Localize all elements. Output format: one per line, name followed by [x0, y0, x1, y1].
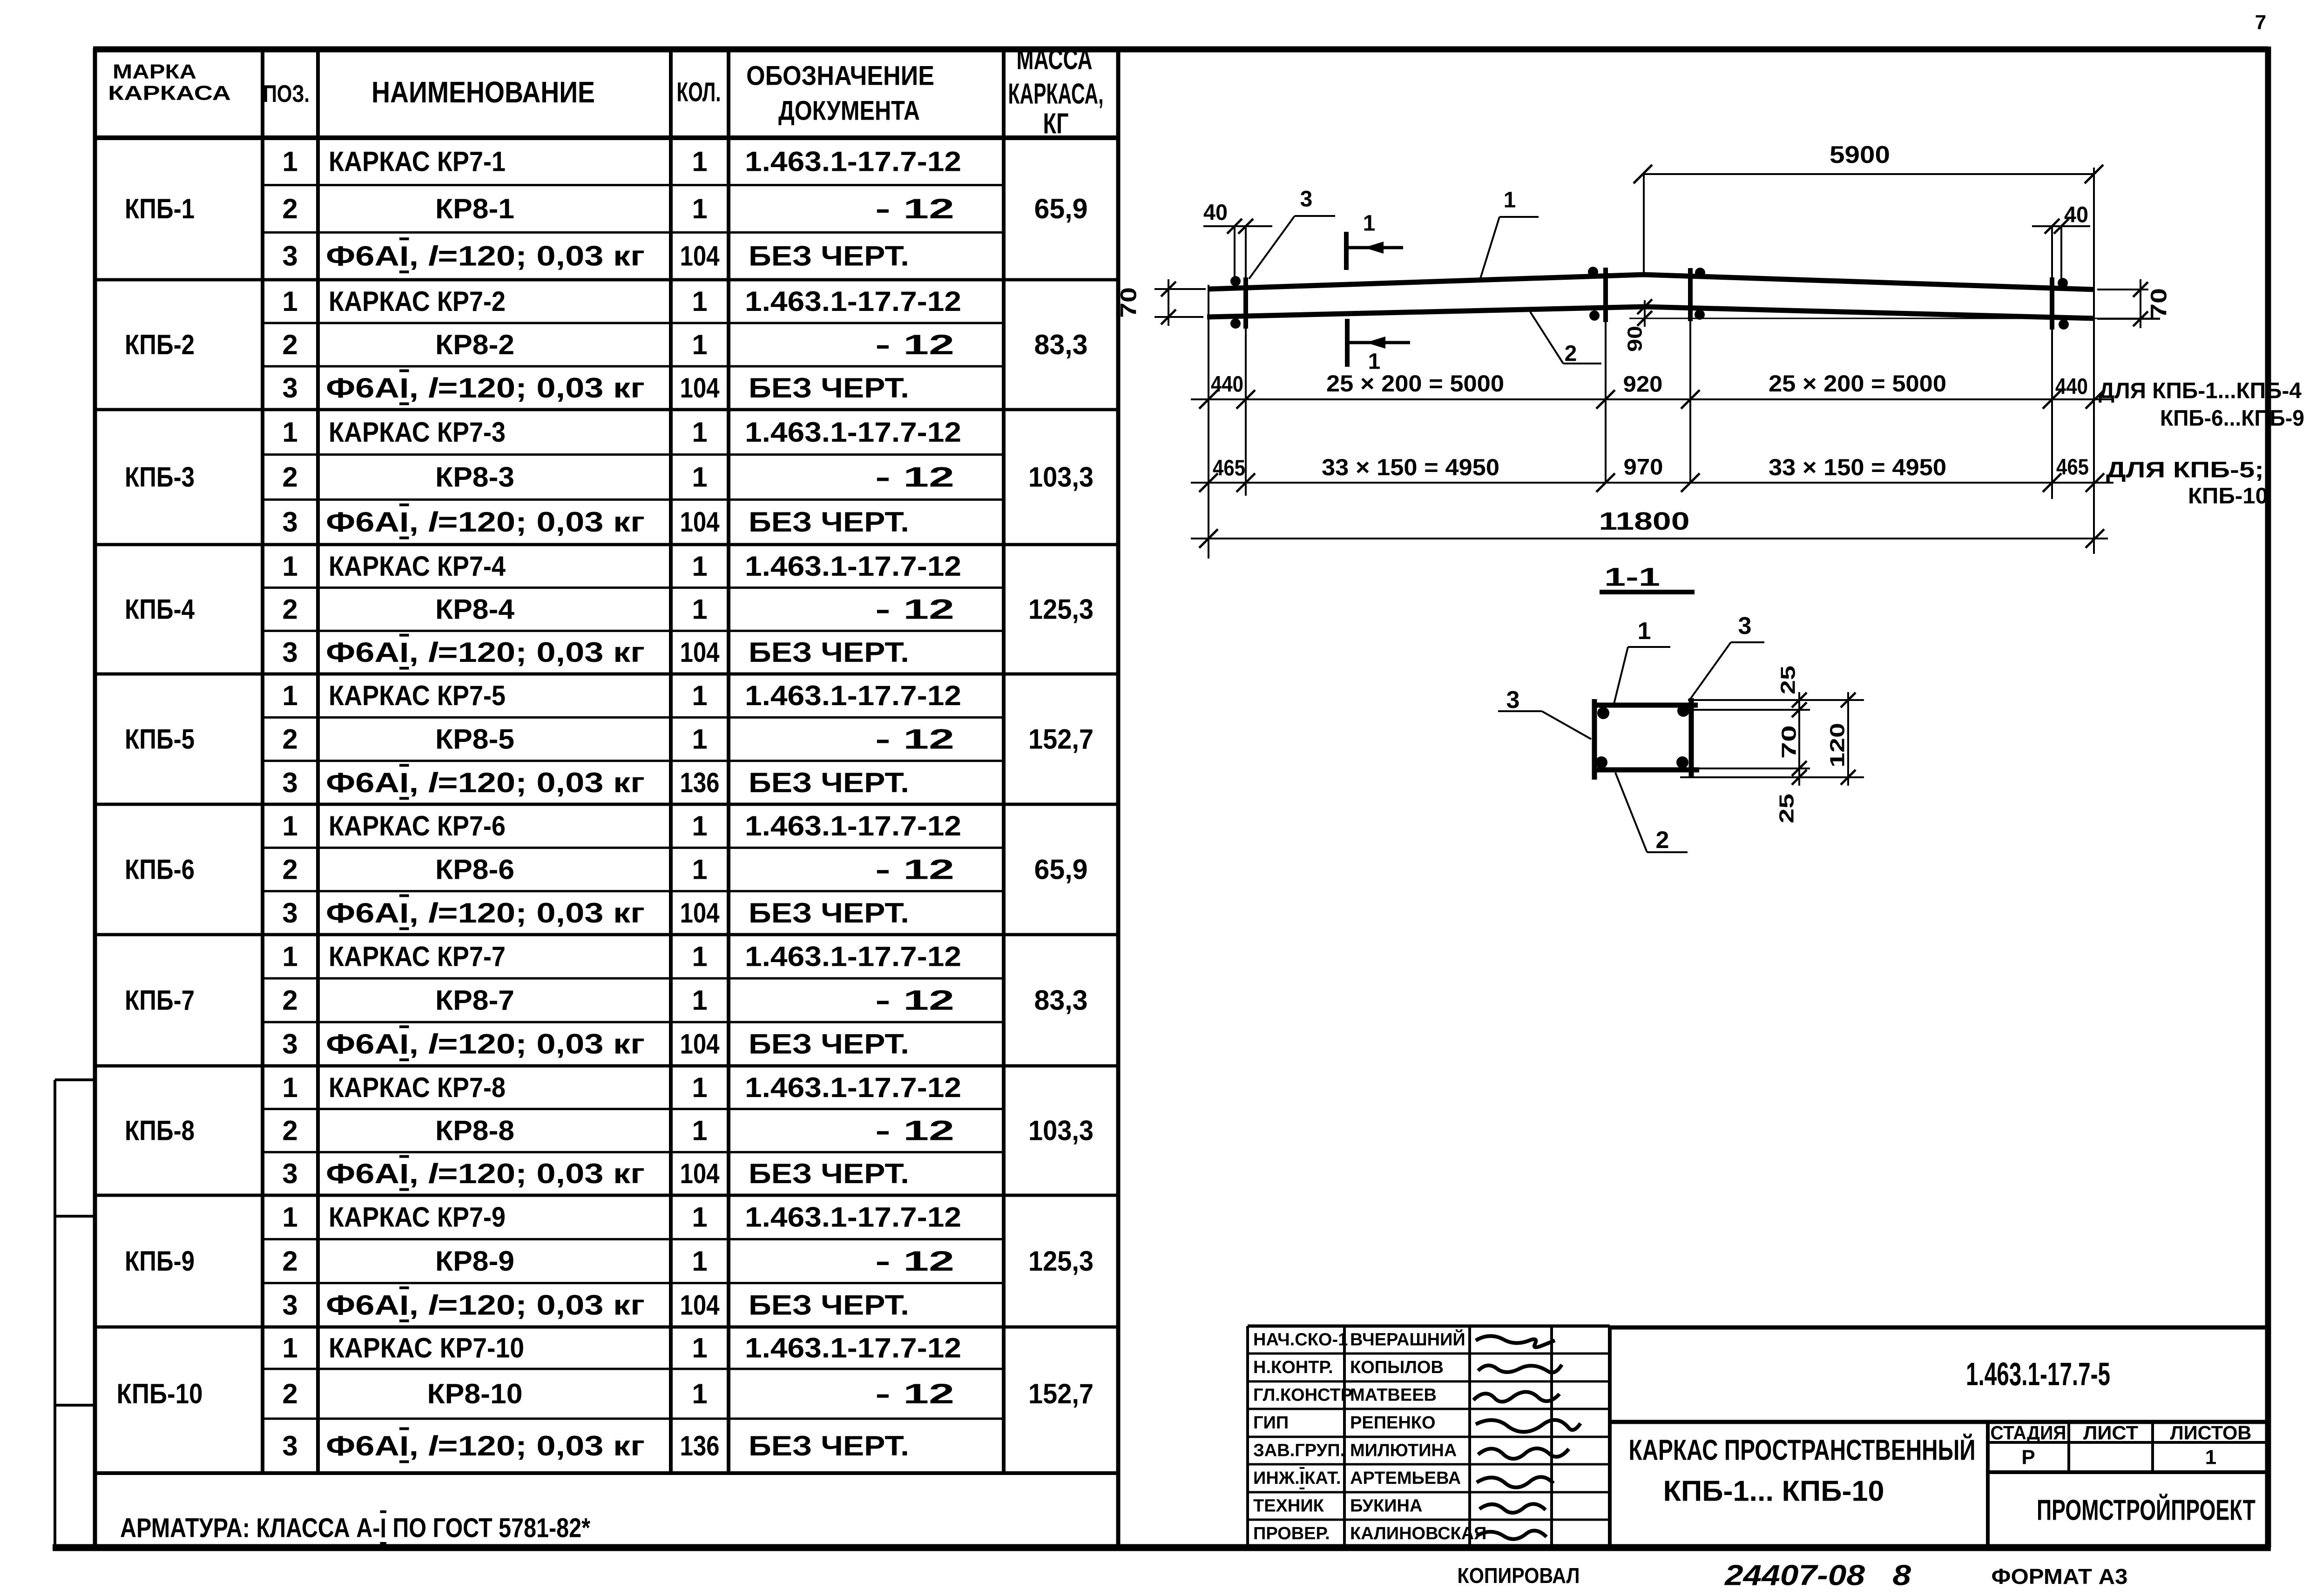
svg-text:2: 2 — [282, 329, 297, 360]
svg-text:104: 104 — [680, 1029, 720, 1060]
sub-row lines of block KPB-3 — [263, 453, 1004, 456]
section corner dots — [1597, 707, 1609, 719]
table block boundary below KPB-1 — [93, 278, 1118, 282]
title block name/stamp divider — [1986, 1422, 1990, 1548]
svg-text:1: 1 — [282, 417, 297, 448]
svg-text:2: 2 — [282, 594, 297, 625]
svg-text:НАЧ.СКО-1: НАЧ.СКО-1 — [1253, 1330, 1348, 1350]
svg-text:КПБ-8: КПБ-8 — [125, 1115, 195, 1146]
svg-text:1: 1 — [692, 854, 707, 885]
svg-text:104: 104 — [680, 1158, 720, 1189]
right end cross bar 3 — [2051, 226, 2053, 499]
svg-text:1: 1 — [692, 941, 707, 972]
extension line left cage tip vertical — [1208, 285, 1209, 559]
dimension chain row 3 total 11800 — [1191, 538, 2108, 539]
svg-text:2: 2 — [282, 985, 297, 1016]
svg-text:1: 1 — [282, 551, 297, 582]
svg-text:440: 440 — [2055, 375, 2088, 399]
svg-text:- 12: - 12 — [875, 329, 954, 360]
signature table row line y=3206 — [1248, 1491, 1610, 1494]
signature table outline — [1246, 1326, 1249, 1548]
svg-text:ОБОЗНАЧЕНИЕ: ОБОЗНАЧЕНИЕ — [746, 61, 934, 91]
svg-text:2: 2 — [1565, 342, 1577, 366]
svg-text:2: 2 — [282, 724, 297, 755]
svg-text:3: 3 — [1300, 187, 1313, 212]
svg-text:- 12: - 12 — [875, 1246, 954, 1277]
sheet frame top border — [93, 47, 2268, 53]
svg-text:465: 465 — [2056, 455, 2089, 480]
table header bottom line — [93, 135, 1118, 140]
svg-text:КОПИРОВАЛ: КОПИРОВАЛ — [1458, 1563, 1580, 1588]
svg-text:25: 25 — [1777, 666, 1800, 694]
svg-text:2: 2 — [1656, 827, 1669, 854]
svg-text:Ф6АI, l=120; 0,03 кг: Ф6АI, l=120; 0,03 кг — [326, 506, 645, 538]
svg-text:БЕЗ ЧЕРТ.: БЕЗ ЧЕРТ. — [749, 1158, 909, 1189]
svg-text:3: 3 — [282, 241, 297, 272]
svg-text:1: 1 — [692, 193, 707, 224]
svg-text:104: 104 — [680, 506, 720, 538]
svg-text:1: 1 — [282, 1202, 297, 1233]
svg-text:КАРКАС КР7-2: КАРКАС КР7-2 — [329, 286, 506, 317]
svg-text:КАРКАС КР7-8: КАРКАС КР7-8 — [329, 1072, 506, 1103]
svg-text:БЕЗ ЧЕРТ.: БЕЗ ЧЕРТ. — [749, 372, 909, 404]
svg-text:ЗАВ.ГРУП.: ЗАВ.ГРУП. — [1253, 1441, 1345, 1461]
svg-text:Ф6АI, l=120; 0,03 кг: Ф6АI, l=120; 0,03 кг — [326, 241, 645, 272]
left 40 extension line — [1234, 226, 1236, 285]
svg-text:ПРОМСТРОЙПРОЕКТ: ПРОМСТРОЙПРОЕКТ — [2037, 1494, 2255, 1527]
sub-row lines of block KPB-5 — [263, 716, 1004, 719]
svg-text:1.463.1-17.7-12: 1.463.1-17.7-12 — [745, 810, 961, 842]
svg-text:Ф6АI, l=120; 0,03 кг: Ф6АI, l=120; 0,03 кг — [326, 767, 645, 798]
svg-text:КОЛ.: КОЛ. — [677, 77, 721, 108]
svg-text:33 × 150 = 4950: 33 × 150 = 4950 — [1769, 454, 1946, 480]
svg-text:3: 3 — [282, 897, 297, 929]
svg-text:3: 3 — [282, 767, 297, 798]
signature table row line y=2908 — [1248, 1353, 1610, 1355]
svg-text:КАРКАС КР7-1: КАРКАС КР7-1 — [329, 146, 506, 177]
table left edge — [93, 48, 97, 1548]
table bottom line above armatura note — [93, 1471, 1118, 1475]
svg-text:1: 1 — [1504, 188, 1516, 213]
svg-text:136: 136 — [680, 767, 720, 798]
svg-text:1: 1 — [282, 941, 297, 972]
svg-text:КПБ-7: КПБ-7 — [125, 985, 195, 1016]
svg-text:ДЛЯ КПБ-1...КПБ-4: ДЛЯ КПБ-1...КПБ-4 — [2099, 379, 2302, 404]
svg-text:2: 2 — [282, 1378, 297, 1409]
svg-text:Ф6АI, l=120; 0,03 кг: Ф6АI, l=120; 0,03 кг — [326, 1158, 645, 1189]
svg-text:104: 104 — [680, 1289, 720, 1320]
svg-text:2: 2 — [282, 1246, 297, 1277]
svg-text:- 12: - 12 — [875, 854, 954, 885]
table block boundary below KPB-5 — [93, 803, 1118, 806]
svg-text:1: 1 — [282, 286, 297, 317]
svg-text:КПБ-6: КПБ-6 — [125, 854, 195, 885]
svg-text:1: 1 — [282, 1333, 297, 1364]
svg-text:33 × 150 = 4950: 33 × 150 = 4950 — [1322, 454, 1499, 480]
svg-text:КАРКАС КР7-6: КАРКАС КР7-6 — [329, 810, 506, 842]
svg-text:70: 70 — [2147, 288, 2172, 319]
svg-text:104: 104 — [680, 897, 720, 929]
section dim 120 — [1847, 692, 1849, 786]
fold strip connector 3 — [55, 1404, 95, 1407]
svg-text:КАРКАС КР7-4: КАРКАС КР7-4 — [329, 551, 506, 582]
svg-text:- 12: - 12 — [875, 985, 954, 1016]
middle reference line — [1629, 318, 2160, 319]
svg-text:920: 920 — [1623, 372, 1663, 397]
svg-text:КР8-2: КР8-2 — [435, 329, 514, 360]
svg-text:136: 136 — [680, 1430, 720, 1461]
svg-text:83,3: 83,3 — [1034, 329, 1088, 360]
svg-text:Ф6АI, l=120; 0,03 кг: Ф6АI, l=120; 0,03 кг — [326, 1029, 645, 1060]
svg-text:1.463.1-17.7-12: 1.463.1-17.7-12 — [745, 286, 961, 317]
svg-text:БУКИНА: БУКИНА — [1350, 1496, 1422, 1516]
svg-text:1.463.1-17.7-12: 1.463.1-17.7-12 — [745, 941, 961, 972]
svg-text:КАЛИНОВСКАЯ: КАЛИНОВСКАЯ — [1350, 1524, 1486, 1543]
svg-text:104: 104 — [680, 637, 720, 668]
svg-text:65,9: 65,9 — [1034, 854, 1088, 885]
sub-row lines of block KPB-4 — [263, 586, 1004, 589]
svg-text:БЕЗ ЧЕРТ.: БЕЗ ЧЕРТ. — [749, 1289, 909, 1320]
svg-text:КПБ-1: КПБ-1 — [125, 193, 195, 224]
svg-text:152,7: 152,7 — [1028, 724, 1094, 755]
svg-text:2: 2 — [282, 1115, 297, 1146]
svg-text:3: 3 — [1506, 687, 1520, 714]
table block boundary below KPB-6 — [93, 933, 1118, 936]
svg-text:1: 1 — [2205, 1446, 2216, 1469]
svg-text:1: 1 — [692, 985, 707, 1016]
svg-text:МАТВЕЕВ: МАТВЕЕВ — [1350, 1386, 1437, 1405]
sub-row lines of block KPB-1 — [263, 184, 1004, 186]
table column line Poz/Naimenovanie — [316, 50, 320, 1473]
svg-text:КАРКАС КР7-10: КАРКАС КР7-10 — [329, 1333, 524, 1364]
right dim 40 — [2032, 225, 2090, 227]
svg-text:КПБ-9: КПБ-9 — [125, 1246, 195, 1277]
svg-text:- 12: - 12 — [875, 1115, 954, 1146]
svg-text:1: 1 — [1638, 618, 1651, 645]
section cut mark 1 top — [1344, 232, 1349, 270]
svg-text:2: 2 — [282, 854, 297, 885]
svg-text:АРМАТУРА: КЛАССА А-I ПО ГОСТ 5: АРМАТУРА: КЛАССА А-I ПО ГОСТ 5781-82* — [120, 1513, 590, 1543]
svg-text:КПБ-5: КПБ-5 — [125, 724, 195, 755]
svg-text:Ф6АI, l=120; 0,03 кг: Ф6АI, l=120; 0,03 кг — [326, 1430, 645, 1461]
svg-text:103,3: 103,3 — [1028, 462, 1094, 493]
section right bar 3 — [1689, 698, 1694, 777]
sub-row lines of block KPB-8 — [263, 1108, 1004, 1110]
svg-text:11800: 11800 — [1599, 507, 1690, 535]
svg-text:КАРКАС КР7-3: КАРКАС КР7-3 — [329, 417, 506, 448]
svg-text:152,7: 152,7 — [1028, 1378, 1094, 1409]
svg-text:КАРКАСА,: КАРКАСА, — [1008, 78, 1104, 110]
svg-text:1: 1 — [692, 551, 707, 582]
signature scribbles — [1476, 1336, 1555, 1347]
svg-text:ДОКУМЕНТА: ДОКУМЕНТА — [778, 96, 920, 126]
svg-text:КПБ-6...КПБ-9: КПБ-6...КПБ-9 — [2160, 406, 2304, 431]
svg-text:КР8-3: КР8-3 — [435, 462, 514, 493]
table block boundary below KPB-2 — [93, 408, 1118, 411]
svg-text:КР8-4: КР8-4 — [435, 594, 515, 625]
svg-text:МАССА: МАССА — [1017, 44, 1093, 76]
sub-row lines of block KPB-10 — [263, 1368, 1004, 1370]
svg-text:ГЛ.КОНСТР: ГЛ.КОНСТР — [1253, 1386, 1352, 1405]
svg-text:ЛИСТОВ: ЛИСТОВ — [2170, 1422, 2252, 1444]
svg-text:1.463.1-17.7-5: 1.463.1-17.7-5 — [1966, 1356, 2110, 1392]
svg-text:КР8-10: КР8-10 — [427, 1378, 523, 1409]
svg-text:1: 1 — [692, 1333, 707, 1364]
dimension chain row 2 (33x150=4950) — [1191, 482, 2113, 484]
svg-text:25: 25 — [1776, 794, 1798, 823]
sub-row lines of block KPB-9 — [263, 1238, 1004, 1240]
svg-text:Ф6АI, l=120; 0,03 кг: Ф6АI, l=120; 0,03 кг — [326, 637, 645, 668]
svg-text:Ф6АI, l=120; 0,03 кг: Ф6АI, l=120; 0,03 кг — [326, 372, 645, 404]
bottom chord bar 2 — [1207, 307, 2094, 318]
svg-text:125,3: 125,3 — [1028, 594, 1094, 625]
top chord bar 1 — [1209, 275, 2094, 290]
middle dim 90 — [1644, 300, 1646, 327]
svg-text:1: 1 — [692, 1246, 707, 1277]
svg-text:2: 2 — [282, 462, 297, 493]
table column line Marka/Poz — [261, 50, 264, 1473]
left dim 40 — [1203, 225, 1272, 227]
svg-text:БЕЗ ЧЕРТ.: БЕЗ ЧЕРТ. — [749, 637, 909, 668]
svg-text:3: 3 — [1738, 613, 1752, 640]
svg-text:КОПЫЛОВ: КОПЫЛОВ — [1350, 1358, 1444, 1377]
svg-text:МИЛЮТИНА: МИЛЮТИНА — [1350, 1441, 1457, 1461]
svg-text:КАРКАС КР7-7: КАРКАС КР7-7 — [329, 941, 506, 972]
svg-text:КР8-7: КР8-7 — [435, 985, 514, 1016]
svg-text:24407-08 8: 24407-08 8 — [1724, 1560, 1911, 1592]
svg-text:МАРКА: МАРКА — [113, 61, 196, 83]
svg-text:КПБ-3: КПБ-3 — [125, 462, 195, 493]
svg-text:- 12: - 12 — [875, 193, 954, 224]
section bottom bar 2 — [1594, 768, 1699, 773]
svg-text:КР8-5: КР8-5 — [435, 724, 514, 755]
svg-text:БЕЗ ЧЕРТ.: БЕЗ ЧЕРТ. — [749, 767, 909, 798]
sheet frame bottom border — [53, 1544, 2271, 1551]
dimension 5900 line — [1643, 173, 2094, 175]
svg-text:40: 40 — [1203, 201, 1228, 225]
svg-text:Ф6АI, l=120; 0,03 кг: Ф6АI, l=120; 0,03 кг — [326, 1289, 645, 1320]
sheet frame right border — [2265, 47, 2271, 1548]
svg-text:1.463.1-17.7-12: 1.463.1-17.7-12 — [745, 680, 961, 711]
svg-text:РЕПЕНКО: РЕПЕНКО — [1350, 1413, 1436, 1433]
signature table row line y=3087 — [1248, 1436, 1610, 1438]
title block doc number divider — [1610, 1420, 2268, 1424]
svg-text:90: 90 — [1624, 326, 1647, 352]
sub-row lines of block KPB-2 — [263, 322, 1004, 324]
svg-text:БЕЗ ЧЕРТ.: БЕЗ ЧЕРТ. — [749, 1430, 909, 1461]
svg-text:КАРКАС ПРОСТРАНСТВЕННЫЙ: КАРКАС ПРОСТРАНСТВЕННЫЙ — [1629, 1434, 1976, 1467]
svg-text:465: 465 — [1213, 456, 1245, 481]
svg-text:КАРКАС КР7-9: КАРКАС КР7-9 — [329, 1202, 506, 1233]
svg-text:1: 1 — [1363, 211, 1376, 236]
signature table row line y=3265 — [1248, 1519, 1610, 1521]
section left bar 3 — [1592, 699, 1597, 780]
svg-text:СТАДИЯ: СТАДИЯ — [1991, 1422, 2066, 1444]
svg-text:- 12: - 12 — [875, 462, 954, 493]
svg-text:ТЕХНИК: ТЕХНИК — [1253, 1496, 1324, 1516]
svg-text:1: 1 — [692, 329, 707, 360]
svg-text:1: 1 — [282, 146, 297, 177]
svg-text:3: 3 — [282, 1158, 297, 1189]
left end cross bar 3 — [1245, 226, 1247, 496]
svg-text:1.463.1-17.7-12: 1.463.1-17.7-12 — [745, 551, 961, 582]
svg-text:КПБ-1... КПБ-10: КПБ-1... КПБ-10 — [1663, 1475, 1884, 1508]
svg-text:1: 1 — [692, 724, 707, 755]
svg-text:3: 3 — [282, 637, 297, 668]
table block boundary below KPB-8 — [93, 1194, 1118, 1197]
svg-text:1.463.1-17.7-12: 1.463.1-17.7-12 — [745, 1202, 961, 1233]
svg-text:ВЧЕРАШНИЙ: ВЧЕРАШНИЙ — [1350, 1329, 1465, 1350]
svg-text:1: 1 — [282, 1072, 297, 1103]
svg-text:Н.КОНТР.: Н.КОНТР. — [1253, 1358, 1333, 1377]
svg-text:103,3: 103,3 — [1028, 1115, 1094, 1146]
svg-text:1.463.1-17.7-12: 1.463.1-17.7-12 — [745, 1072, 961, 1103]
section top bar 1 — [1597, 703, 1698, 708]
signature table row line y=3027 — [1248, 1408, 1610, 1410]
svg-text:70: 70 — [1778, 725, 1801, 759]
svg-text:НАИМЕНОВАНИЕ: НАИМЕНОВАНИЕ — [371, 75, 595, 109]
dimension chain row 1 (25x200=5000) — [1191, 398, 2113, 400]
table column line Naimenovanie/Kol — [669, 50, 673, 1473]
signature table row line y=3146 — [1248, 1463, 1610, 1466]
svg-text:3: 3 — [282, 1430, 297, 1461]
svg-text:120: 120 — [1826, 723, 1849, 768]
svg-text:1.463.1-17.7-12: 1.463.1-17.7-12 — [745, 146, 961, 177]
svg-text:1: 1 — [282, 680, 297, 711]
svg-text:1: 1 — [692, 462, 707, 493]
svg-text:1: 1 — [692, 286, 707, 317]
svg-text:ПОЗ.: ПОЗ. — [263, 81, 310, 108]
svg-text:25 × 200 = 5000: 25 × 200 = 5000 — [1769, 370, 1946, 397]
svg-text:БЕЗ ЧЕРТ.: БЕЗ ЧЕРТ. — [749, 506, 909, 538]
right dim 70 — [2140, 279, 2141, 328]
svg-text:1.463.1-17.7-12: 1.463.1-17.7-12 — [745, 1333, 961, 1364]
svg-text:1: 1 — [692, 1072, 707, 1103]
svg-text:1: 1 — [692, 1115, 707, 1146]
svg-text:ИНЖ.IКАТ.: ИНЖ.IКАТ. — [1253, 1468, 1341, 1488]
left dim 70 — [1168, 279, 1169, 326]
svg-text:ФОРМАТ А3: ФОРМАТ А3 — [1992, 1564, 2128, 1589]
svg-text:1: 1 — [692, 810, 707, 842]
svg-text:1-1: 1-1 — [1604, 562, 1660, 592]
svg-text:3: 3 — [282, 1289, 297, 1320]
section dim chain 25/70/25 — [1798, 692, 1800, 786]
svg-text:КР8-6: КР8-6 — [435, 854, 514, 885]
table block boundary below KPB-9 — [93, 1326, 1118, 1329]
middle stirrup left — [1603, 268, 1608, 322]
title block outline — [1610, 1326, 2268, 1330]
svg-text:КР8-9: КР8-9 — [435, 1246, 514, 1277]
svg-text:7: 7 — [2255, 11, 2266, 34]
svg-text:ГИП: ГИП — [1253, 1413, 1289, 1433]
table column line Kol/Oboznachenie — [727, 50, 730, 1473]
svg-text:1: 1 — [692, 680, 707, 711]
svg-text:40: 40 — [2064, 203, 2088, 228]
svg-text:БЕЗ ЧЕРТ.: БЕЗ ЧЕРТ. — [749, 241, 909, 272]
section extension lines — [1688, 699, 1864, 701]
svg-text:КР8-8: КР8-8 — [435, 1115, 514, 1146]
svg-text:5900: 5900 — [1830, 141, 1890, 168]
svg-text:3: 3 — [282, 1029, 297, 1060]
table right edge — [1116, 48, 1121, 1548]
right 40 extension line — [2060, 226, 2062, 285]
svg-text:КР8-1: КР8-1 — [435, 193, 514, 224]
svg-text:25 × 200 = 5000: 25 × 200 = 5000 — [1326, 370, 1504, 397]
sub-row lines of block KPB-6 — [263, 847, 1004, 849]
svg-text:970: 970 — [1624, 455, 1663, 480]
svg-text:КАРКАСА: КАРКАСА — [108, 82, 231, 105]
table block boundary below KPB-3 — [93, 543, 1118, 546]
extension line right end vertical — [2093, 168, 2095, 554]
svg-text:125,3: 125,3 — [1028, 1246, 1094, 1277]
table block boundary below KPB-4 — [93, 673, 1118, 676]
svg-text:3: 3 — [282, 506, 297, 538]
fold strip connector 2 — [55, 1215, 95, 1218]
extension line from 5900 to apex — [1643, 174, 1645, 275]
svg-text:КПБ-2: КПБ-2 — [125, 329, 195, 360]
svg-text:БЕЗ ЧЕРТ.: БЕЗ ЧЕРТ. — [749, 897, 909, 929]
svg-text:3: 3 — [282, 372, 297, 404]
stadiya/list/listov dividers — [2067, 1422, 2070, 1472]
fold strip connector 1 — [55, 1078, 95, 1081]
svg-text:ДЛЯ КПБ-5;: ДЛЯ КПБ-5; — [2106, 458, 2264, 483]
section cut mark 1 bottom — [1345, 319, 1350, 367]
svg-text:104: 104 — [680, 241, 720, 272]
svg-text:КГ: КГ — [1043, 108, 1069, 140]
signature table row line y=2968 — [1248, 1381, 1610, 1383]
svg-text:Р: Р — [2021, 1446, 2035, 1469]
middle stirrup right — [1688, 268, 1693, 321]
svg-text:1: 1 — [282, 810, 297, 842]
svg-text:- 12: - 12 — [875, 594, 954, 625]
svg-text:1: 1 — [692, 1202, 707, 1233]
svg-text:1: 1 — [692, 146, 707, 177]
svg-text:- 12: - 12 — [875, 724, 954, 755]
svg-text:КПБ-4: КПБ-4 — [125, 594, 195, 625]
svg-text:Ф6АI, l=120; 0,03 кг: Ф6АI, l=120; 0,03 кг — [326, 897, 645, 929]
svg-text:ПРОВЕР.: ПРОВЕР. — [1253, 1524, 1330, 1543]
svg-text:- 12: - 12 — [875, 1378, 954, 1409]
svg-text:70: 70 — [1117, 287, 1141, 318]
sheet frame left fold strip line — [54, 1080, 56, 1548]
table block boundary below KPB-7 — [93, 1064, 1118, 1068]
svg-text:83,3: 83,3 — [1034, 985, 1088, 1016]
svg-text:440: 440 — [1211, 372, 1243, 397]
svg-text:104: 104 — [680, 372, 720, 404]
svg-text:1: 1 — [692, 1378, 707, 1409]
svg-text:АРТЕМЬЕВА: АРТЕМЬЕВА — [1350, 1468, 1461, 1488]
svg-text:КАРКАС КР7-5: КАРКАС КР7-5 — [329, 680, 506, 711]
svg-text:1.463.1-17.7-12: 1.463.1-17.7-12 — [745, 417, 961, 448]
cage dots elevation — [1230, 276, 1241, 286]
svg-text:ЛИСТ: ЛИСТ — [2083, 1422, 2138, 1444]
svg-text:БЕЗ ЧЕРТ.: БЕЗ ЧЕРТ. — [749, 1029, 909, 1060]
svg-text:КПБ-10: КПБ-10 — [2188, 484, 2268, 509]
table column line Oboznachenie/Massa — [1002, 50, 1006, 1473]
svg-text:КПБ-10: КПБ-10 — [117, 1378, 203, 1409]
svg-text:2: 2 — [282, 193, 297, 224]
svg-text:1: 1 — [692, 594, 707, 625]
svg-text:65,9: 65,9 — [1034, 193, 1088, 224]
svg-text:1: 1 — [692, 417, 707, 448]
sub-row lines of block KPB-7 — [263, 977, 1004, 980]
